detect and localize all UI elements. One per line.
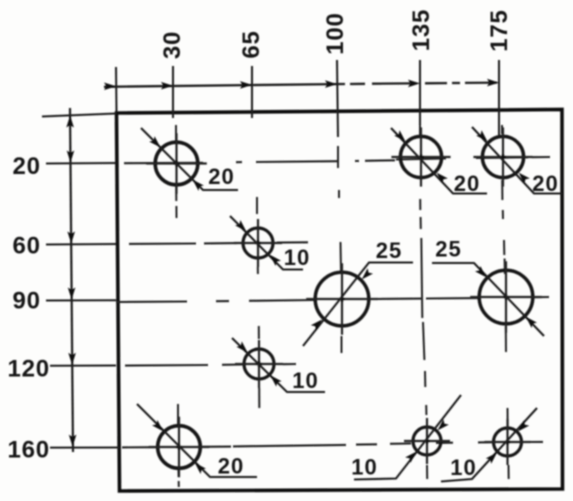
svg-text:20: 20 [532,171,558,196]
svg-text:120: 120 [7,356,49,383]
svg-text:10: 10 [351,455,377,480]
svg-text:20: 20 [208,164,234,189]
svg-text:30: 30 [159,31,186,59]
svg-text:10: 10 [450,455,476,480]
svg-text:135: 135 [408,9,435,51]
svg-text:65: 65 [238,30,265,58]
svg-text:100: 100 [322,12,349,54]
svg-text:20: 20 [454,171,480,196]
svg-text:10: 10 [284,245,310,270]
svg-text:90: 90 [12,288,40,315]
svg-text:60: 60 [12,233,40,260]
svg-text:10: 10 [292,368,318,393]
svg-text:20: 20 [218,454,244,479]
svg-text:20: 20 [12,153,40,180]
svg-text:25: 25 [435,237,461,262]
svg-text:25: 25 [376,238,402,263]
svg-text:175: 175 [486,9,513,51]
svg-text:160: 160 [7,437,49,464]
